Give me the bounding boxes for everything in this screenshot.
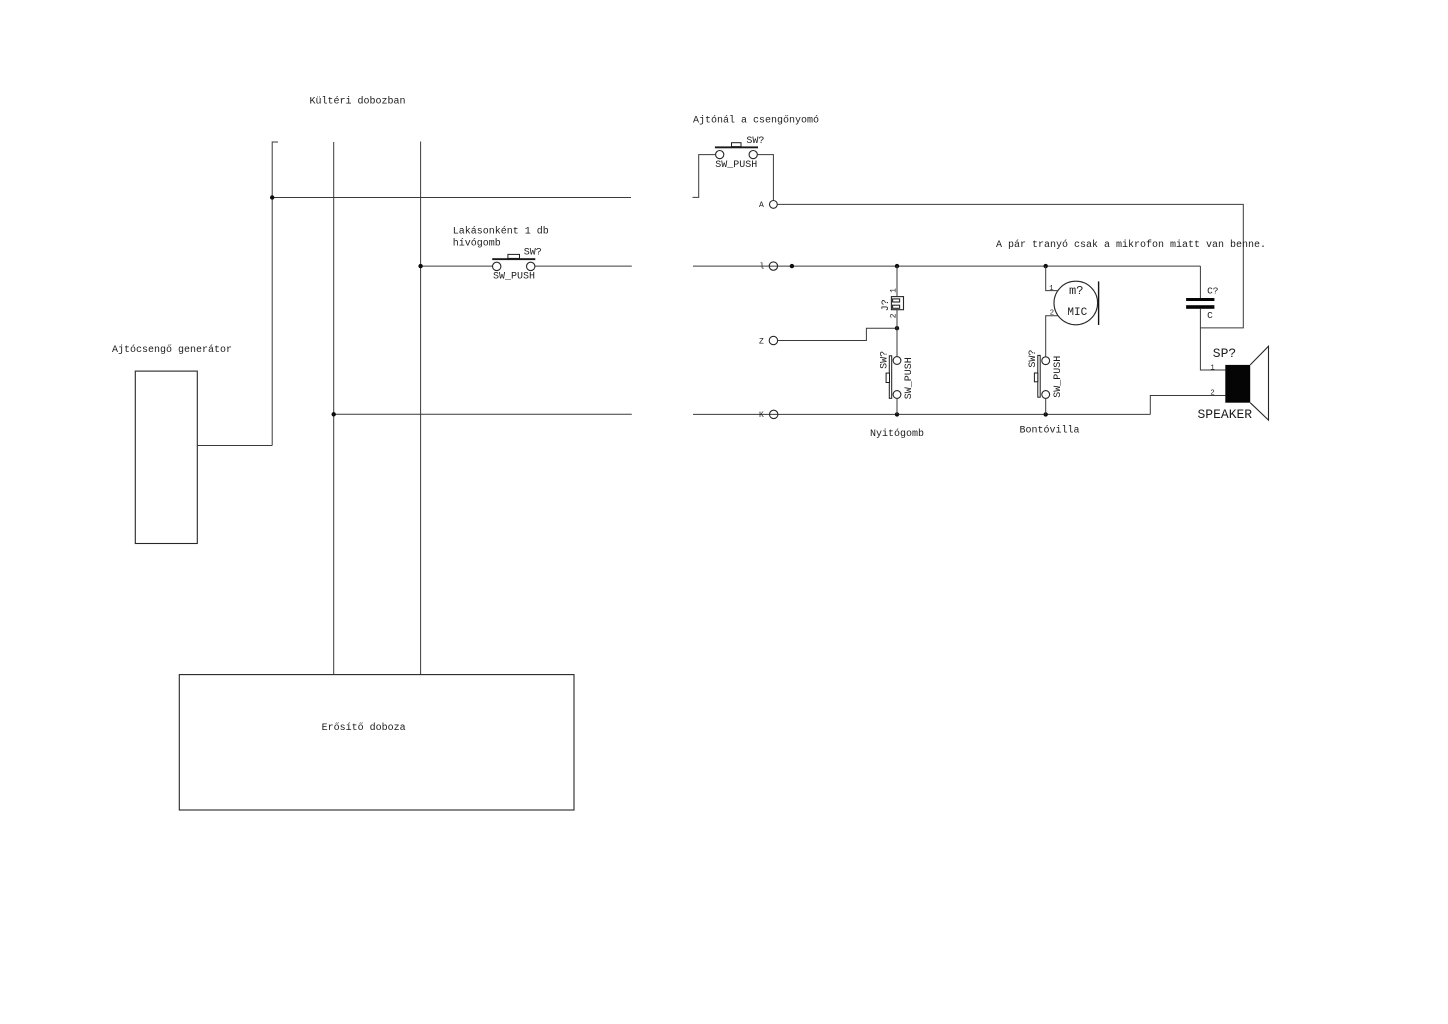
wire K line right end up to speaker pin 2 bbox=[1150, 396, 1225, 415]
wire Nyitógomb switch to K line bbox=[896, 398, 898, 414]
wire capacitor bottom down to speaker pin 1 bbox=[1200, 309, 1225, 370]
wire net L horizontal line bbox=[693, 265, 1200, 267]
switch pin circle 2 bbox=[893, 391, 901, 399]
wire horizontal call-button line L-left bbox=[421, 265, 493, 267]
svg-text:C?: C? bbox=[1207, 286, 1218, 297]
switch actuator bump bbox=[1034, 373, 1037, 382]
wire horizontal bus A-left (top) bbox=[272, 197, 631, 199]
generator box (Ajtócsengő generátor) bbox=[135, 371, 197, 543]
switch pin circle 1 bbox=[893, 357, 901, 365]
svg-text:SW_PUSH: SW_PUSH bbox=[715, 160, 757, 171]
amplifier box (Erősítő doboza) bbox=[179, 675, 574, 810]
svg-text:Ajtónál a csengőnyomó: Ajtónál a csengőnyomó bbox=[693, 115, 819, 127]
svg-text:Erősítő doboza: Erősítő doboza bbox=[322, 722, 406, 734]
svg-text:C: C bbox=[1207, 310, 1213, 321]
node Z terminal circle bbox=[769, 336, 777, 344]
switch pin circle 2 bbox=[1042, 391, 1050, 399]
microphone m? MIC bbox=[1049, 281, 1098, 325]
capacitor top plate bbox=[1186, 298, 1214, 301]
svg-text:m?: m? bbox=[1069, 284, 1083, 298]
switch bar bbox=[715, 146, 758, 148]
wire connector J pin2 down to Z junction bbox=[896, 310, 898, 329]
svg-text:Nyitógomb: Nyitógomb bbox=[870, 428, 924, 440]
wire doorbell switch left leg with end tick bbox=[693, 155, 716, 198]
microphone body circle bbox=[1054, 281, 1098, 325]
svg-text:SW_PUSH: SW_PUSH bbox=[904, 357, 915, 399]
svg-text:Bontóvilla: Bontóvilla bbox=[1020, 424, 1080, 436]
svg-text:Kültéri dobozban: Kültéri dobozban bbox=[310, 96, 406, 108]
wire bbox=[535, 265, 632, 267]
svg-text:SW?: SW? bbox=[1028, 350, 1039, 368]
junction riser2 / K line bbox=[332, 412, 336, 416]
svg-text:SW?: SW? bbox=[746, 136, 764, 147]
svg-text:SW_PUSH: SW_PUSH bbox=[493, 272, 535, 283]
svg-text:SPEAKER: SPEAKER bbox=[1198, 407, 1253, 422]
switch actuator bump bbox=[732, 143, 742, 147]
svg-text:SW?: SW? bbox=[880, 351, 891, 369]
wire horizontal K-left line bbox=[334, 413, 632, 415]
svg-text:Ajtócsengő generátor: Ajtócsengő generátor bbox=[112, 344, 232, 356]
switch bar bbox=[1038, 355, 1040, 397]
switch pin circle 1 bbox=[1042, 357, 1050, 365]
wire net K horizontal line bbox=[693, 413, 1150, 415]
wire L junction down to connector J pin 1 bbox=[896, 266, 898, 297]
junction riser3 / call line bbox=[418, 264, 422, 268]
connector J? pin socket 1 bbox=[893, 299, 900, 302]
junction on L line bbox=[790, 264, 794, 268]
wire net A: right, down, left to capacitor node bbox=[777, 204, 1243, 328]
switch SW? pin circle 2 bbox=[527, 262, 535, 270]
switch pin circle 1 bbox=[716, 151, 724, 159]
switch SW? (Nyitógomb) SW_PUSH vertical bbox=[880, 351, 915, 399]
switch pin circle 2 bbox=[749, 151, 757, 159]
wire Z junction down to Nyitógomb switch bbox=[896, 328, 898, 357]
capacitor C? bbox=[1186, 286, 1218, 322]
junction L / MIC branch bbox=[1044, 264, 1048, 268]
node A terminal circle bbox=[770, 201, 778, 209]
svg-text:l: l bbox=[760, 263, 765, 272]
svg-text:K: K bbox=[759, 411, 764, 420]
svg-text:MIC: MIC bbox=[1067, 307, 1087, 319]
svg-text:A: A bbox=[759, 201, 764, 210]
svg-text:1: 1 bbox=[1049, 285, 1053, 293]
junction K / Nyitógomb switch bbox=[895, 412, 899, 416]
wire vertical riser 1 (from generator) with top stub tick bbox=[272, 142, 278, 446]
wire L junction down to microphone pin 1 bbox=[1046, 266, 1058, 291]
junction on riser1 / top bus bbox=[270, 195, 274, 199]
speaker body (filled) bbox=[1225, 365, 1250, 403]
switch SW? (Ajtónál a csengőnyomó) SW_PUSH bbox=[715, 136, 765, 171]
switch bar bbox=[889, 356, 891, 399]
wire vertical riser 2 (to amplifier box) bbox=[333, 142, 335, 675]
wire generator output to riser1 bbox=[197, 445, 272, 447]
wire L line end down to capacitor C? bbox=[1199, 266, 1201, 298]
connector J? pin socket 2 bbox=[893, 305, 900, 308]
svg-text:SW?: SW? bbox=[524, 247, 542, 258]
svg-text:Lakásonként 1 db: Lakásonként 1 db bbox=[453, 226, 549, 238]
node K terminal circle bbox=[770, 410, 778, 418]
wire vertical riser 3 (to amplifier box) bbox=[420, 142, 422, 675]
switch SW? pin circle 1 bbox=[493, 262, 501, 270]
speaker horn outline bbox=[1250, 346, 1268, 420]
svg-text:1: 1 bbox=[889, 288, 898, 293]
svg-text:SW_PUSH: SW_PUSH bbox=[1053, 356, 1064, 398]
microphone membrane bar bbox=[1098, 281, 1100, 325]
svg-text:A pár tranyó csak a mikrofon m: A pár tranyó csak a mikrofon miatt van b… bbox=[996, 239, 1266, 251]
wire doorbell switch right leg down to node A bbox=[757, 155, 773, 201]
svg-text:SP?: SP? bbox=[1213, 346, 1236, 361]
junction Z / J connector pin 2 bbox=[895, 326, 899, 330]
speaker SP? bbox=[1198, 346, 1269, 422]
switch SW? (hívógomb) SW_PUSH bbox=[492, 247, 542, 282]
wire net Z: right, up, right to J connector junction bbox=[778, 328, 897, 340]
switch actuator bump bbox=[886, 373, 889, 382]
connector J? bbox=[881, 288, 903, 318]
svg-text:hívógomb: hívógomb bbox=[453, 237, 501, 249]
connector J? outer box bbox=[891, 297, 903, 310]
node L terminal circle bbox=[769, 262, 777, 270]
switch SW? (Bontóvilla) SW_PUSH vertical bbox=[1028, 350, 1064, 399]
junction L / J connector branch bbox=[895, 264, 899, 268]
capacitor bottom plate bbox=[1186, 305, 1214, 309]
svg-text:2: 2 bbox=[1210, 390, 1214, 398]
svg-text:J?: J? bbox=[881, 299, 892, 311]
svg-text:Z: Z bbox=[759, 337, 764, 346]
wire microphone pin 2 down to Bontóvilla switch bbox=[1046, 316, 1058, 357]
svg-text:1: 1 bbox=[1210, 364, 1214, 372]
switch SW? bar bbox=[492, 258, 535, 260]
wire Bontóvilla switch to K line bbox=[1045, 398, 1047, 414]
junction K / Bontóvilla switch bbox=[1044, 412, 1048, 416]
switch SW? actuator bump bbox=[508, 254, 520, 258]
